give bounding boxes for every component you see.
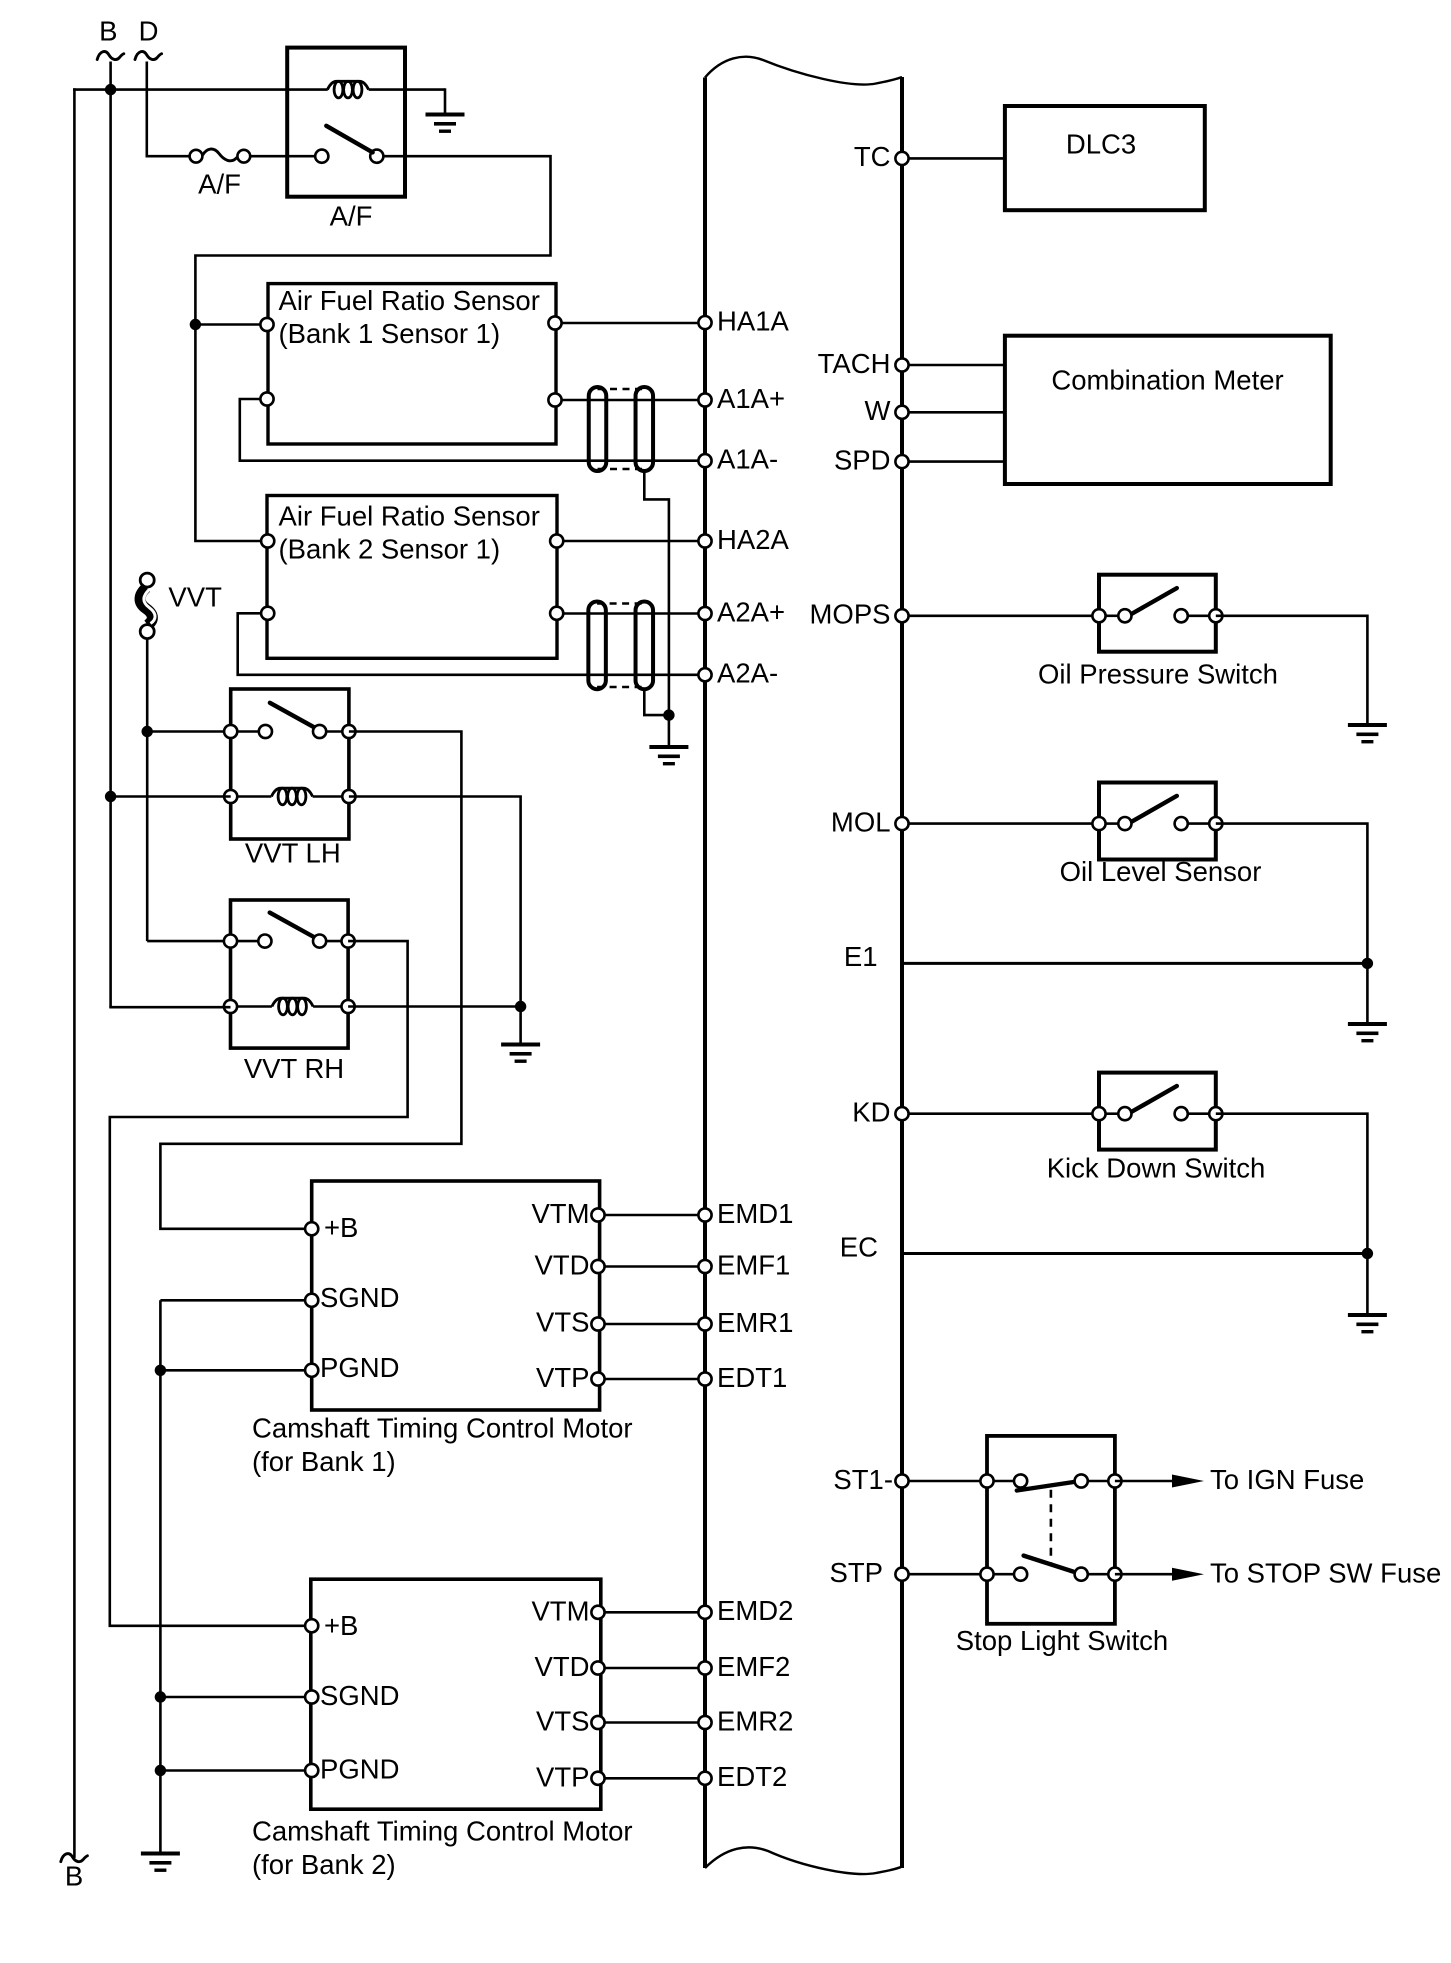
Air Fuel Ratio Sensor (Bank 1 Sensor 1) box (268, 284, 556, 444)
pin circle ST1- (895, 1474, 908, 1487)
wire Kick Down Switch to EC junction (1216, 1114, 1368, 1254)
svg-text:W: W (865, 395, 891, 426)
svg-text:VTD: VTD (535, 1651, 590, 1682)
bank2 sensor wires to ECU (557, 540, 705, 543)
svg-text:TC: TC (854, 141, 891, 172)
svg-text:Oil Level Sensor: Oil Level Sensor (1060, 856, 1262, 887)
svg-text:MOL: MOL (831, 806, 891, 837)
relay VVT LH box (231, 689, 349, 839)
wire TACH to Combination Meter (902, 364, 1005, 367)
junction: VVT coils common (515, 1001, 526, 1012)
svg-text:VVT RH: VVT RH (244, 1053, 344, 1084)
wire: top horizontal feed from B rail to A/F relay coil (73, 88, 328, 91)
Oil Level Sensor (1099, 783, 1216, 860)
ECU bus bottom wave (705, 1847, 902, 1874)
wire STP to Stop Light Switch (902, 1573, 987, 1576)
wire Oil Pressure Switch to ground (1216, 616, 1368, 723)
Kick Down Switch (1099, 1073, 1216, 1150)
ECU pin EDT1 (698, 1372, 711, 1385)
junction: shield drains (663, 709, 674, 720)
fuse A/F (190, 149, 251, 163)
bank1 sensor low-side loop wire (240, 399, 705, 461)
connector VVT (140, 573, 155, 639)
svg-text:To STOP SW Fuse: To STOP SW Fuse (1210, 1558, 1441, 1589)
svg-text:KD: KD (852, 1097, 890, 1128)
svg-text:B: B (65, 1861, 83, 1892)
svg-text:PGND: PGND (320, 1754, 399, 1785)
svg-text:VTP: VTP (536, 1362, 589, 1393)
svg-text:Combination Meter: Combination Meter (1051, 365, 1283, 396)
junction EC/kick down (1362, 1248, 1373, 1259)
ECU pin EMF1 (698, 1260, 711, 1273)
wire coil to ground stub (369, 88, 445, 91)
ECU pin A2A- (698, 668, 711, 681)
relay A/F box (287, 48, 405, 197)
pin circle TACH (895, 358, 908, 371)
svg-text:A1A-: A1A- (717, 444, 778, 475)
svg-text:EMD1: EMD1 (717, 1198, 793, 1229)
ECU pin EMR2 (698, 1716, 711, 1729)
wire E1 junction to ground (1366, 963, 1369, 1022)
ECU pin A1A- (698, 454, 711, 467)
fuse A/F wire from D rail (146, 155, 190, 158)
junction: PGND bank2 (155, 1765, 166, 1776)
wire MOL to Oil Level Sensor (902, 822, 1099, 825)
twisted pair shield dash (A2A bottom) (597, 686, 644, 689)
svg-text:D: D (139, 16, 159, 47)
svg-text:VVT LH: VVT LH (245, 838, 341, 869)
pin circle SPD (895, 455, 908, 468)
junction: PGND bank1 (155, 1365, 166, 1376)
svg-text:VTM: VTM (531, 1595, 589, 1626)
ECU pin A2A+ (698, 607, 711, 620)
ground (VVT coils) (501, 1043, 540, 1063)
stop light switch ST1- row (987, 1480, 1014, 1483)
pin circle KD (895, 1107, 908, 1120)
ECU pin EDT2 (698, 1772, 711, 1785)
ground (EC) (1348, 1313, 1387, 1333)
pin circle TC (895, 152, 908, 165)
svg-text:E1: E1 (844, 941, 878, 972)
svg-text:EDT1: EDT1 (717, 1362, 787, 1393)
svg-text:A2A-: A2A- (717, 658, 778, 689)
relay A/F contacts (315, 150, 328, 163)
VVT RH edge pins (224, 935, 237, 948)
svg-text:EMF1: EMF1 (717, 1249, 790, 1280)
svg-text:(Bank 1 Sensor 1): (Bank 1 Sensor 1) (279, 318, 501, 349)
wire W to Combination Meter (902, 411, 1005, 414)
wire KD to Kick Down Switch (902, 1112, 1099, 1115)
junction E1/oil level (1362, 958, 1373, 969)
svg-text:Kick Down Switch: Kick Down Switch (1047, 1153, 1266, 1184)
wire: VVT LH switch to +B of bank1 motor (160, 732, 461, 1229)
stop light switch STP row (987, 1573, 1014, 1576)
svg-text:EC: EC (840, 1232, 878, 1263)
bank1 sensor pins (260, 318, 273, 331)
svg-text:+B: +B (324, 1212, 358, 1243)
wire: VVT coils to ground (519, 1007, 522, 1043)
ECU pin HA2A (698, 534, 711, 547)
svg-text:VTS: VTS (536, 1706, 589, 1737)
twisted pair shield dash (A1A bottom) (598, 468, 645, 471)
svg-text:To IGN Fuse: To IGN Fuse (1210, 1464, 1364, 1495)
ECU bus right line (900, 77, 904, 1868)
svg-text:Camshaft Timing Control Motor: Camshaft Timing Control Motor (252, 1412, 633, 1443)
wire: B rail to VVT LH coil (111, 795, 231, 798)
junction on B rail at top feed (105, 84, 116, 95)
svg-text:Air Fuel Ratio Sensor: Air Fuel Ratio Sensor (279, 285, 540, 316)
svg-text:EMR2: EMR2 (717, 1705, 793, 1736)
svg-text:(for Bank 2): (for Bank 2) (252, 1849, 396, 1880)
wire MOPS to Oil Pressure Switch (902, 614, 1099, 617)
twisted pair loop (A2A right) (636, 602, 654, 690)
ECU pin A1A+ (698, 393, 711, 406)
svg-text:PGND: PGND (320, 1352, 399, 1383)
ground (A/F relay coil) (426, 113, 465, 133)
ECU bus left line (703, 78, 707, 1869)
twisted pair loop (A2A left) (588, 602, 606, 690)
svg-text:Oil Pressure Switch: Oil Pressure Switch (1038, 658, 1278, 689)
svg-text:DLC3: DLC3 (1066, 129, 1136, 160)
svg-text:SPD: SPD (834, 444, 891, 475)
VVT RH switch contacts (231, 940, 259, 943)
wire: B rail from top break down to VVT RH coil corner (109, 62, 112, 1008)
VVT LH blade (270, 703, 317, 729)
svg-text:(for Bank 1): (for Bank 1) (252, 1446, 396, 1477)
VVT RH blade (270, 913, 315, 938)
wire Oil Level Sensor to E1 junction (1216, 824, 1368, 964)
VVT LH coil (231, 795, 272, 798)
Air Fuel Ratio Sensor (Bank 2 Sensor 1) box (267, 496, 557, 659)
wire: rail from B junction down to bottom break (net B) (73, 88, 76, 1858)
Oil Pressure Switch (1099, 575, 1216, 652)
twisted pair loop (A1A right) (636, 387, 654, 471)
wire fuse to relay (250, 155, 315, 158)
svg-text:STP: STP (830, 1557, 883, 1588)
motor2 pins (305, 1619, 318, 1632)
bank2 sensor pins (261, 534, 274, 547)
Camshaft Timing Control Motor (for Bank 1) box (312, 1181, 600, 1410)
wire EC junction to ground (1366, 1254, 1369, 1314)
twisted pair shield dash (A1A top) (598, 388, 645, 391)
svg-text:EMF2: EMF2 (717, 1651, 790, 1682)
Camshaft Timing Control Motor (for Bank 2) box (311, 1579, 601, 1809)
wire: shield drain from A2A pair (644, 689, 669, 715)
wire: shield drain to ground (668, 715, 671, 745)
wire TC to DLC3 (902, 157, 1005, 160)
ECU pin EMD1 (698, 1208, 711, 1221)
bank1 sensor wires to ECU (555, 322, 705, 325)
svg-text:VTD: VTD (535, 1249, 590, 1280)
svg-text:(Bank 2 Sensor 1): (Bank 2 Sensor 1) (279, 534, 501, 565)
break symbol under B (97, 52, 124, 60)
svg-text:+B: +B (324, 1610, 358, 1641)
motor1 wires to ECU (598, 1214, 705, 1217)
pin circle STP (895, 1568, 908, 1581)
wire/arrow To IGN Fuse (1115, 1480, 1172, 1483)
svg-text:A/F: A/F (198, 168, 241, 199)
wire: VVT rail down to VVT RH switch (146, 639, 149, 942)
twisted pair shield dash (A2A top) (597, 602, 644, 605)
ECU bus top wave (705, 57, 902, 85)
wire: shield drain from A1A pair (644, 471, 669, 715)
VVT RH coil (231, 1005, 272, 1008)
wire: relay output right/down/left to heater rail (195, 156, 550, 541)
svg-text:MOPS: MOPS (810, 599, 891, 630)
svg-text:VTS: VTS (536, 1307, 589, 1338)
relay A/F coil (327, 81, 368, 98)
motor2 wires to ECU (598, 1611, 705, 1614)
pin circle W (895, 406, 908, 419)
junction: VVT rail to VVT LH switch (142, 726, 153, 737)
svg-text:A1A+: A1A+ (717, 383, 785, 414)
junction: B rail at VVT LH coil (105, 791, 116, 802)
wire: heater feed tee to bank1 sensor pin (195, 323, 267, 326)
junction: heater feed to bank1 sensor (190, 319, 201, 330)
svg-text:VVT: VVT (168, 581, 222, 612)
bank2 sensor low-side loop wire (238, 613, 705, 675)
VVT LH switch contacts (231, 730, 259, 733)
motor1 pins (305, 1222, 318, 1235)
ECU pin HA1A (698, 316, 711, 329)
svg-text:A/F: A/F (330, 201, 373, 232)
ground (oil pressure switch) (1348, 723, 1387, 743)
wire/arrow To STOP SW Fuse (1115, 1573, 1172, 1576)
wire E1 to ground rail (902, 962, 1367, 965)
svg-text:VTP: VTP (536, 1761, 589, 1792)
ECU pin EMD2 (698, 1606, 711, 1619)
wire SPD to Combination Meter (902, 460, 1005, 463)
svg-text:EMR1: EMR1 (717, 1307, 793, 1338)
wire EC to ground rail (902, 1252, 1367, 1255)
wire: VVT tee to VVT LH switch (147, 730, 231, 733)
ECU pin EMF2 (698, 1661, 711, 1674)
wire: VVT RH switch to +B of bank2 motor (110, 941, 408, 1626)
stop light switch link (dashed) (1050, 1490, 1053, 1564)
junction: SGND bank2 (155, 1691, 166, 1702)
svg-text:SGND: SGND (320, 1680, 399, 1711)
ground (signal ground column) (141, 1852, 180, 1872)
svg-text:Stop Light Switch: Stop Light Switch (956, 1625, 1168, 1656)
svg-text:EMD2: EMD2 (717, 1595, 793, 1626)
pin circle MOPS (895, 609, 908, 622)
svg-text:HA2A: HA2A (717, 524, 789, 555)
DLC3 box (1005, 106, 1205, 210)
break symbol under D (135, 52, 162, 60)
svg-text:TACH: TACH (818, 348, 891, 379)
svg-text:Air Fuel Ratio Sensor: Air Fuel Ratio Sensor (279, 501, 540, 532)
wire: VVT RH coil to ground junction (348, 1005, 520, 1008)
ground (sensor shield) (649, 745, 688, 765)
svg-text:EDT2: EDT2 (717, 1761, 787, 1792)
wire: VVT LH coil to junction with VVT RH coil (349, 797, 521, 1007)
wire ST1- to Stop Light Switch (902, 1480, 987, 1483)
Combination Meter box (1005, 336, 1331, 484)
wire: B rail corner to VVT RH coil (109, 1006, 230, 1009)
break symbol bottom B (61, 1854, 88, 1862)
svg-text:ST1-: ST1- (833, 1464, 893, 1495)
Stop Light Switch box (987, 1436, 1115, 1624)
twisted pair loop (A1A left) (589, 387, 607, 471)
VVT LH edge pins (224, 725, 237, 738)
svg-text:VTM: VTM (531, 1198, 589, 1229)
relay VVT RH box (231, 900, 349, 1048)
wire: D rail from top break down to A/F fuse (146, 62, 149, 157)
svg-text:Camshaft Timing Control Motor: Camshaft Timing Control Motor (252, 1815, 633, 1846)
svg-text:HA1A: HA1A (717, 305, 789, 336)
relay A/F blade (326, 126, 372, 153)
pin circle MOL (895, 817, 908, 830)
svg-text:B: B (99, 16, 117, 47)
ECU pin EMR1 (698, 1317, 711, 1330)
svg-text:SGND: SGND (320, 1282, 399, 1313)
ground (E1) (1348, 1022, 1387, 1042)
wire: signal-ground column (160, 1299, 311, 1302)
svg-text:A2A+: A2A+ (717, 596, 785, 627)
